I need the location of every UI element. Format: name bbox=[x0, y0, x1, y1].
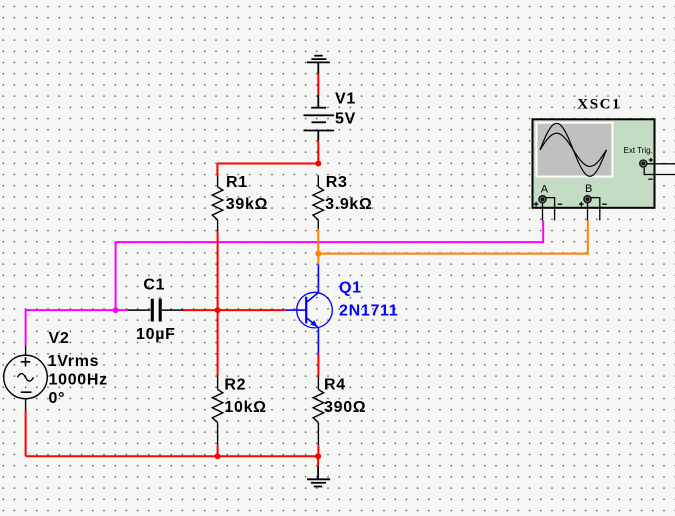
svg-text:2N1711: 2N1711 bbox=[339, 303, 398, 320]
svg-text:R2: R2 bbox=[224, 377, 246, 394]
svg-text:V2: V2 bbox=[49, 330, 70, 347]
svg-text:1Vrms: 1Vrms bbox=[48, 353, 100, 370]
svg-text:R4: R4 bbox=[324, 377, 346, 394]
svg-text:R3: R3 bbox=[326, 174, 348, 191]
svg-text:C1: C1 bbox=[143, 277, 165, 294]
svg-text:Q1: Q1 bbox=[339, 280, 362, 297]
svg-text:390Ω: 390Ω bbox=[324, 399, 366, 416]
svg-text:1000Hz: 1000Hz bbox=[49, 372, 108, 389]
svg-text:V1: V1 bbox=[335, 91, 356, 108]
svg-text:B: B bbox=[585, 183, 592, 195]
svg-text:10kΩ: 10kΩ bbox=[224, 399, 266, 416]
svg-text:10µF: 10µF bbox=[136, 326, 176, 343]
svg-text:Ext Trig.: Ext Trig. bbox=[624, 146, 653, 155]
svg-text:0°: 0° bbox=[49, 390, 66, 407]
svg-text:A: A bbox=[541, 184, 549, 196]
svg-text:XSC1: XSC1 bbox=[577, 96, 621, 112]
svg-text:R1: R1 bbox=[226, 174, 248, 191]
svg-text:3.9kΩ: 3.9kΩ bbox=[325, 196, 372, 213]
svg-text:5V: 5V bbox=[335, 111, 356, 128]
svg-text:39kΩ: 39kΩ bbox=[226, 196, 268, 213]
